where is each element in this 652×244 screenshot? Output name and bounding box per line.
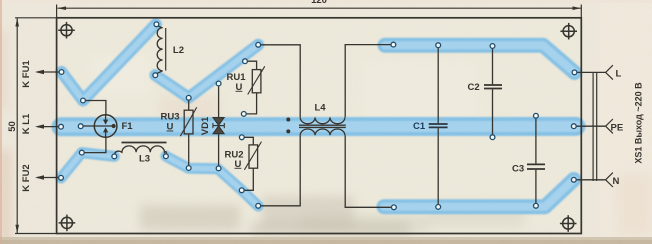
node pad C1 bottom: [436, 205, 441, 210]
wire trace: L2 bottom to L4 top-left pad (V shape via RU3/VD1/RU1 pads): [155, 45, 258, 98]
pads layer: [59, 22, 577, 210]
wire trace: middle PE bus from K L1 pad to PE output pad: [61, 117, 576, 136]
node pad RU3 top: [186, 95, 191, 100]
node pad L3 right: [164, 154, 169, 159]
bottom scan strip: [0, 237, 652, 244]
dimension 120 line: [58, 6, 582, 10]
mounting hole top-left: [58, 22, 75, 39]
XS1 pin L: [575, 65, 613, 79]
node pad RU3 bottom: [186, 166, 191, 171]
wire trace highlight: V2: [155, 45, 258, 98]
node pad RU1 top: [243, 59, 248, 64]
wire trace: bottom output bus to N output pad: [384, 180, 574, 207]
inductor L2: [155, 25, 165, 74]
dimension 50 line: [15, 18, 19, 233]
wire: L4 bottom-left lead: [258, 135, 300, 206]
node pad L4 bottom-left: [256, 203, 261, 208]
inductor L3: [115, 143, 167, 156]
varistor RU3: [180, 98, 196, 168]
wire trace highlight: bottom bus: [384, 180, 574, 207]
wire trace: top output bus to L output pad: [385, 45, 575, 72]
node pad VD1 bottom: [216, 166, 221, 171]
wire: L4 top-left lead: [258, 45, 300, 118]
node pad C3 bottom: [534, 203, 539, 208]
node pad C2 top: [490, 44, 495, 49]
node pad VD1 top: [216, 81, 221, 86]
arrester F1: [81, 115, 117, 138]
node pad RU2 top: [239, 135, 244, 140]
wire trace: L3 right pad to L4 bottom-left pad: [166, 156, 258, 206]
node pad RU1 bottom: [241, 112, 246, 117]
node pad N output: [571, 177, 576, 182]
PCB board outline: [57, 18, 582, 234]
capacitor C1: [429, 45, 448, 207]
node pad L2 bottom: [153, 73, 158, 78]
node pad V1 vertex / F1 top: [81, 98, 86, 103]
node pad L2 top: [154, 22, 159, 27]
capacitor C2: [484, 46, 502, 137]
arrow leader K FU1: [35, 70, 62, 74]
node pad K FU2: [59, 175, 64, 180]
labels layer: [7, 0, 643, 192]
node pad F1 left: [78, 124, 83, 129]
mounting hole bottom-left: [59, 215, 76, 232]
XS1 pin N: [574, 173, 613, 187]
wire trace highlight: FU2-L3: [61, 153, 114, 178]
suppressor VD1: [213, 84, 224, 169]
wire: V1 vertex pad to F1 top electrode: [83, 101, 106, 115]
node pad L4 top-right on bus: [391, 42, 396, 47]
node pad L3 left: [112, 154, 117, 159]
node pad RU2 bottom: [239, 188, 244, 193]
transformer L4: [286, 117, 346, 135]
board edge extension lines for dimensions: [15, 17, 57, 19]
node pad L4 bottom-right on bus: [392, 205, 397, 210]
varistor RU2: [242, 137, 262, 190]
arrow leader K L1: [35, 124, 61, 128]
capacitor C3: [527, 116, 545, 206]
wire trace: K FU2 pad to L3 left pad: [61, 153, 114, 178]
node pad C1 top: [436, 43, 441, 48]
arrow leader K FU2: [35, 175, 61, 179]
node pad PE output: [571, 124, 576, 129]
XS1 pin PE: [574, 119, 613, 133]
node pad C2 bottom: [490, 135, 495, 140]
wire trace highlight: V1: [62, 24, 156, 100]
node pad L output: [572, 70, 577, 75]
node pad K FU1: [59, 70, 64, 75]
wire trace highlight: top bus: [385, 45, 575, 72]
wire: L4 top-right lead: [345, 45, 393, 118]
mounting hole top-right: [560, 23, 577, 40]
node pad K L1: [59, 124, 64, 129]
wire trace highlight: L3-L4: [166, 156, 258, 206]
wire: L4 bottom-right lead: [345, 135, 394, 207]
blue traces layer: [61, 24, 576, 206]
wire trace highlight: PE bus: [61, 121, 576, 132]
node pad L4 top-left: [256, 42, 261, 47]
mounting hole bottom-right: [560, 215, 577, 232]
node pad C3 top: [534, 113, 539, 118]
connector XS1 body: [593, 72, 597, 181]
varistor RU1: [244, 61, 265, 114]
node pad F1 bottom: [79, 150, 84, 155]
wire: F1 bottom pad to F1 bottom electrode: [82, 137, 106, 153]
wire trace: K FU1 pad to L2 top (V shape): [62, 24, 156, 100]
